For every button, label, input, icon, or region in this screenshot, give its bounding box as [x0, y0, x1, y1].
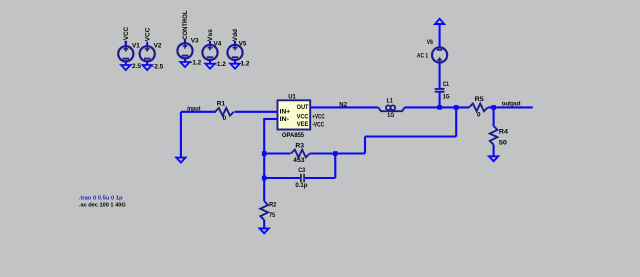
wire C1 to main	[439, 92, 441, 108]
wire input down	[180, 112, 182, 158]
svg-text:-1.2: -1.2	[190, 60, 201, 67]
label C1	[443, 81, 450, 88]
V4 bottom pin stub	[209, 60, 211, 64]
net label input	[187, 105, 201, 112]
node input wire	[181, 111, 216, 113]
pin label IN-	[280, 116, 289, 123]
resistor R1	[215, 108, 234, 116]
svg-text:1G: 1G	[443, 94, 450, 101]
wire R3 to join	[310, 152, 336, 154]
wire C3 to riser	[305, 177, 335, 179]
value 0.1p of C3	[295, 182, 307, 189]
value 0 of R5	[477, 112, 481, 119]
svg-text:1.2: 1.2	[241, 61, 250, 68]
ground under V1	[121, 65, 130, 70]
svg-text:Vss: Vss	[207, 29, 214, 42]
net label +VCC at V1	[123, 26, 130, 43]
svg-text:C3: C3	[298, 167, 305, 174]
svg-text:R1: R1	[217, 100, 226, 107]
wire R4 top	[493, 107, 495, 126]
V2 bottom pin stub	[146, 61, 148, 65]
label R5	[475, 96, 484, 103]
net label -VCC at VEE pin	[312, 121, 324, 128]
value 75 of R2	[269, 212, 275, 219]
ground under V2	[143, 65, 152, 70]
label V6	[427, 39, 434, 46]
svg-text:.tran 0 0.5u 0 1p: .tran 0 0.5u 0 1p	[79, 195, 123, 201]
wire C3 riser up	[334, 154, 336, 179]
wire V6 to C1	[439, 63, 441, 89]
svg-text:V2: V2	[154, 43, 162, 50]
pin label IN+	[280, 109, 291, 116]
svg-text:V4: V4	[214, 40, 222, 47]
svg-text:.ac dec 100 1 40G: .ac dec 100 1 40G	[79, 203, 126, 209]
V4 top pin stub	[209, 41, 211, 45]
svg-text:+VCC: +VCC	[312, 114, 325, 121]
op-amp U1 body	[278, 100, 311, 129]
resistor R5	[469, 104, 488, 112]
svg-text:IN-: IN-	[280, 116, 289, 123]
svg-text:CONTROL: CONTROL	[182, 10, 189, 39]
svg-text:-VCC: -VCC	[312, 121, 324, 128]
label R1	[217, 100, 226, 107]
label L1	[387, 98, 394, 105]
resistor R4	[490, 126, 498, 145]
voltage source V5	[227, 45, 242, 60]
svg-text:L1: L1	[387, 98, 394, 105]
svg-text:OUT: OUT	[297, 104, 309, 111]
svg-text:AC 1: AC 1	[417, 53, 429, 60]
svg-text:R5: R5	[475, 96, 484, 103]
label R3	[295, 143, 304, 150]
junction main-feedback	[454, 105, 459, 110]
svg-text:2.5: 2.5	[132, 63, 141, 70]
svg-text:Vdd: Vdd	[232, 29, 239, 41]
value -1.2 of V3	[190, 60, 201, 67]
V3 top pin stub	[184, 39, 186, 43]
svg-text:C1: C1	[443, 81, 450, 88]
wire R4 bottom	[493, 145, 495, 157]
svg-text:VEE: VEE	[297, 121, 309, 128]
label R4	[499, 129, 508, 136]
svg-text:N2: N2	[339, 101, 347, 108]
svg-text:75: 75	[269, 212, 275, 219]
junction column-C3	[262, 176, 267, 181]
wire R5 to output	[488, 106, 533, 108]
svg-text:453: 453	[293, 157, 305, 164]
svg-text:U1: U1	[288, 94, 296, 101]
svg-text:V6: V6	[427, 39, 434, 46]
value -2.5 of V2	[152, 63, 163, 70]
wire V6 top	[439, 24, 441, 47]
V3 bottom pin stub	[184, 58, 186, 62]
wire step up	[364, 137, 366, 154]
wire join to step	[335, 152, 365, 154]
resistor R3	[291, 150, 310, 158]
value -1.2 of V4	[215, 61, 226, 68]
V1 top pin stub	[125, 42, 127, 46]
voltage source V6	[432, 47, 447, 62]
wire R1 to IN+	[235, 111, 278, 113]
value 453 of R3	[293, 157, 305, 164]
ground at input	[176, 158, 185, 163]
svg-text:V3: V3	[191, 37, 199, 44]
svg-text:0: 0	[477, 112, 481, 119]
wire column to C3	[264, 177, 300, 179]
pin label VEE	[297, 121, 309, 128]
svg-text:50: 50	[499, 139, 508, 146]
value 50 of R4	[499, 139, 508, 146]
ground under R4	[489, 156, 498, 161]
svg-text:R2: R2	[269, 202, 277, 209]
svg-text:+VCC: +VCC	[123, 26, 130, 43]
V5 bottom pin stub	[234, 60, 236, 64]
ground under V3	[180, 62, 189, 67]
svg-text:R4: R4	[499, 129, 508, 136]
voltage source V3	[177, 43, 192, 58]
net label +VCC at VCC pin	[312, 114, 325, 121]
wire L1 to R5	[405, 106, 470, 108]
value 1G of C1	[443, 94, 450, 101]
voltage source V2	[140, 46, 155, 61]
net label -VCC at V2	[144, 27, 151, 43]
pin label VCC	[297, 113, 309, 120]
ground under V5	[230, 64, 239, 69]
net label Vdd at V5	[232, 29, 239, 41]
wire IN- to column	[264, 118, 277, 120]
wire R2 bottom	[263, 220, 265, 229]
wire feedback across	[365, 135, 456, 137]
svg-text:V1: V1	[132, 43, 140, 50]
label V5	[239, 40, 247, 47]
capacitor C1	[435, 89, 445, 92]
V2 top pin stub	[146, 42, 148, 46]
wire feedback rise	[455, 107, 457, 136]
net label N2	[339, 101, 347, 108]
wire column to R3	[264, 152, 290, 154]
value AC 1 of V6	[417, 53, 429, 60]
resistor R2	[260, 201, 268, 220]
svg-text:-1.2: -1.2	[215, 61, 226, 68]
value 1.2 of V5	[241, 61, 250, 68]
svg-text:0: 0	[223, 115, 227, 122]
label V4	[214, 40, 222, 47]
voltage source V4	[202, 45, 217, 60]
svg-text:-2.5: -2.5	[152, 63, 163, 70]
svg-text:input: input	[187, 105, 201, 112]
ground under V4	[205, 64, 214, 69]
label C3	[298, 167, 305, 174]
junction R3-C3 join	[333, 151, 338, 156]
net label output	[502, 100, 522, 107]
up-ground above V6	[435, 19, 444, 24]
svg-text:1G: 1G	[387, 112, 394, 119]
label V3	[191, 37, 199, 44]
svg-text:output: output	[502, 100, 522, 107]
directive .tran	[79, 195, 123, 201]
svg-text:0.1p: 0.1p	[295, 182, 307, 189]
wire column down	[263, 118, 265, 201]
inductor L1	[378, 105, 405, 111]
junction main-C1	[437, 105, 442, 110]
value 1G of L1	[387, 112, 394, 119]
label OPA855	[282, 132, 305, 139]
svg-text:VCC: VCC	[297, 113, 309, 120]
net label Vss at V4	[207, 29, 214, 42]
directive .ac	[79, 203, 126, 209]
svg-text:OPA855: OPA855	[282, 132, 305, 139]
svg-text:R3: R3	[295, 143, 304, 150]
label V2	[154, 43, 162, 50]
voltage source V1	[118, 46, 133, 61]
net label CONTROL at V3	[182, 10, 189, 39]
V1 bottom pin stub	[125, 61, 127, 65]
svg-text:V5: V5	[239, 40, 247, 47]
svg-text:-VCC: -VCC	[144, 27, 151, 43]
value 0 of R1	[223, 115, 227, 122]
V5 top pin stub	[234, 41, 236, 45]
svg-text:IN+: IN+	[280, 109, 291, 116]
pin label OUT	[297, 104, 309, 111]
capacitor C3	[301, 174, 304, 182]
label U1	[288, 94, 296, 101]
junction column-R3	[262, 151, 267, 156]
junction main-R4	[491, 105, 496, 110]
value 2.5 of V1	[132, 63, 141, 70]
wire OUT to L1	[310, 106, 378, 108]
label V1	[132, 43, 140, 50]
ground under R2	[260, 228, 269, 233]
label R2	[269, 202, 277, 209]
